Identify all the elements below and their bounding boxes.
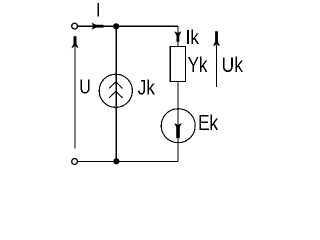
wire (bottom, corner to terminal) (78, 160, 178, 162)
terminal (top-left port) (72, 23, 78, 29)
current arrow Ik (174, 31, 181, 42)
node (junction dot, top of Jk branch) (113, 23, 119, 29)
wire (top, from terminal to right corner) (78, 25, 178, 27)
voltage arrow Uk head (213, 31, 220, 46)
wire (Jk branch vertical) (115, 26, 117, 161)
wire (right branch, top segment) (177, 26, 179, 46)
label Jk (138, 79, 155, 94)
wire (between Yk and Ek) (177, 82, 179, 111)
admittance Yk (rectangle) (170, 47, 185, 82)
voltage arrow Uk tail (216, 45, 218, 87)
source Ek arrow symbol (174, 123, 181, 138)
label Yk (188, 56, 207, 72)
label U (81, 79, 90, 93)
wire (through Ek circle) (177, 109, 179, 124)
label I (97, 3, 99, 17)
node (junction dot, bottom of Jk branch) (113, 158, 119, 164)
voltage arrow U head (71, 36, 78, 48)
terminal (bottom-left port) (72, 159, 78, 165)
current source Jk lower chevron (109, 91, 123, 97)
current arrow I on top wire (92, 23, 104, 30)
label Ek (200, 114, 219, 130)
current source Jk upper chevron (109, 82, 123, 88)
source Ek (circle) (161, 109, 195, 143)
wire (Ek to bottom corner) (177, 138, 179, 161)
label Ik (187, 29, 199, 44)
label Uk (223, 57, 243, 73)
voltage arrow U tail (74, 47, 76, 149)
current source Jk (circle) (99, 74, 132, 107)
